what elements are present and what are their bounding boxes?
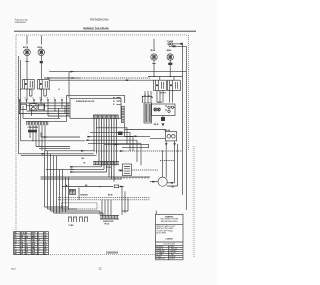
wire: loop over control board — [49, 96, 125, 122]
wire: left mid runs — [19, 130, 97, 156]
wire: bank drops to terminals — [27, 89, 46, 100]
svg-text:L2: L2 — [32, 98, 34, 100]
header rule — [14, 30, 196, 32]
wire: dashed run y170 — [132, 169, 159, 171]
svg-text:P3 BK: P3 BK — [106, 167, 112, 169]
wire: mid horizontal runs 2 — [70, 166, 107, 173]
wire: right mid horizontals — [86, 127, 141, 165]
svg-text:LEGEND: LEGEND — [166, 238, 174, 240]
connector comb bottom — [100, 215, 119, 225]
svg-text:SURFACE IND. BLOCK: SURFACE IND. BLOCK — [76, 100, 95, 103]
terminal row TB1 — [17, 98, 63, 104]
wire: stubs from top border — [27, 36, 154, 50]
wire: bank drops to relays — [142, 91, 173, 104]
svg-text:PLUG: PLUG — [105, 223, 110, 225]
svg-text:316262204: 316262204 — [106, 252, 119, 255]
wire: right rails — [183, 44, 187, 210]
notes box — [156, 211, 184, 261]
relay box K2 — [152, 102, 176, 115]
svg-text:BL BLUE: BL BLUE — [169, 256, 175, 258]
wire: runs right of loop — [125, 130, 166, 139]
wire: dashed run y151.5 — [94, 150, 183, 152]
bake element terminals — [69, 217, 88, 227]
svg-text:ALSO WIRE.: ALSO WIRE. — [157, 232, 167, 235]
svg-text:BK/TR: BK/TR — [23, 47, 29, 49]
svg-text:FEF365BXCWA: FEF365BXCWA — [90, 18, 109, 22]
wire: comb drops — [94, 119, 117, 182]
junction blob — [154, 116, 165, 127]
svg-text:OVEN BK: OVEN BK — [80, 194, 88, 196]
wire: door lock drops to motor — [160, 141, 178, 186]
door lock switch — [165, 130, 177, 141]
svg-text:BL: BL — [44, 253, 46, 255]
connector comb left — [26, 122, 49, 130]
svg-text:BK W: BK W — [108, 194, 113, 196]
svg-text:BEFORE SERVICING: BEFORE SERVICING — [161, 221, 178, 223]
svg-text:OVEN RELAY: OVEN RELAY — [28, 126, 40, 129]
wire: bottom feeders — [45, 187, 129, 216]
wire: bottom center runs — [58, 185, 150, 200]
svg-text:WIRING DIAGRAM: WIRING DIAGRAM — [83, 27, 109, 31]
svg-text:P PINK: P PINK — [156, 256, 161, 258]
svg-text:5995368781: 5995368781 — [15, 22, 27, 24]
indicator light left-front — [23, 47, 30, 79]
surface switch bank left — [20, 79, 60, 90]
surface switch bank right — [154, 80, 181, 94]
wire: left rail pair — [19, 56, 21, 154]
svg-text:BR BROWN: BR BROWN — [156, 250, 164, 252]
svg-text:G GREEN: G GREEN — [169, 250, 176, 252]
svg-text:W WHITE: W WHITE — [156, 248, 163, 250]
dashed box bottom — [62, 203, 98, 209]
wire: right bank feed — [148, 76, 183, 80]
indicator light left-rear — [150, 50, 157, 76]
svg-text:P-SACK: P-SACK — [167, 40, 174, 43]
svg-text:L1: L1 — [20, 89, 22, 91]
motor M1 — [150, 177, 175, 188]
wire: loop y143 — [104, 144, 149, 148]
diagram dashed border — [16, 35, 194, 258]
relay TOD — [21, 104, 45, 110]
svg-text:BK-: BK- — [82, 158, 85, 160]
svg-text:JB/LB: JB/LB — [37, 47, 43, 49]
indicator light right-rear ABPS — [167, 49, 174, 76]
svg-text:L1: L1 — [17, 98, 19, 100]
connector P1 top right — [167, 40, 187, 47]
wire: left crisscross — [19, 102, 70, 118]
svg-text:V VIOLET: V VIOLET — [169, 252, 176, 254]
relay K1 hatched connector — [144, 103, 152, 123]
connector comb mid — [93, 161, 119, 169]
svg-text:BK W: BK W — [154, 124, 159, 126]
svg-text:W WHT: W WHT — [169, 258, 174, 260]
svg-text:DR SW: DR SW — [165, 130, 171, 132]
svg-text:Publication No.: Publication No. — [15, 19, 29, 22]
wire: loop right continuation — [118, 123, 150, 137]
label: wire tags mid — [82, 158, 87, 164]
wire: L drop x79 — [78, 188, 80, 200]
wire: motor drop — [161, 151, 163, 177]
svg-text:Y YELLOW: Y YELLOW — [169, 248, 177, 250]
wire: central vertical bundle — [45, 151, 69, 214]
svg-text:12: 12 — [98, 267, 102, 271]
wire: bundle corners — [41, 151, 80, 179]
svg-text:P1 BK: P1 BK — [69, 225, 75, 227]
pin strip on control board right edge — [122, 106, 125, 123]
control board EOC — [70, 97, 121, 119]
svg-text:JB/LR: JB/LR — [150, 50, 156, 52]
oven sensor RTD — [118, 164, 132, 176]
wire: comb-left drops — [29, 125, 70, 151]
color code table — [14, 232, 49, 256]
wire: top horizontal runs — [44, 71, 186, 98]
wire: hatched rail y177 — [70, 170, 150, 179]
indicator light right-front — [37, 47, 44, 79]
connector block small — [70, 190, 76, 195]
